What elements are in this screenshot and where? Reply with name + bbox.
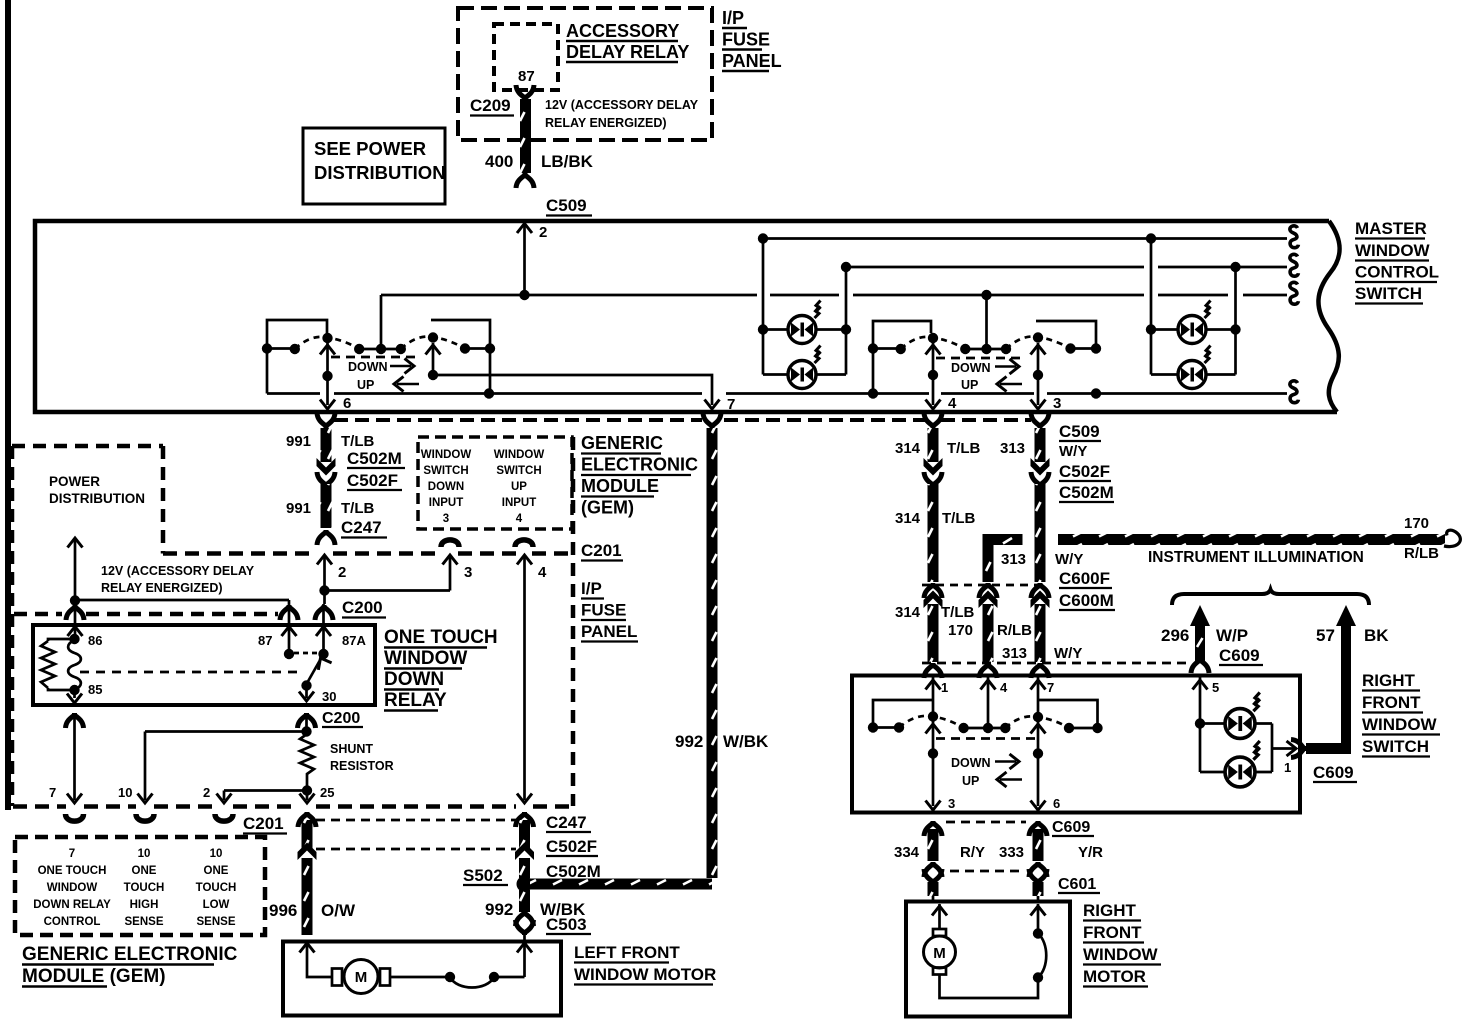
wire 313 W/Y middle bbox=[1035, 484, 1046, 582]
connector C502F bbox=[317, 471, 402, 490]
svg-text:25: 25 bbox=[320, 785, 334, 800]
svg-text:C201: C201 bbox=[581, 541, 622, 560]
svg-text:HIGH: HIGH bbox=[130, 899, 159, 911]
svg-text:C502M: C502M bbox=[347, 449, 402, 468]
svg-text:5: 5 bbox=[1212, 680, 1219, 695]
svg-text:313: 313 bbox=[1001, 551, 1026, 568]
label RIGHT FRONT WINDOW MOTOR bbox=[1083, 901, 1161, 987]
svg-text:GENERIC ELECTRONIC: GENERIC ELECTRONIC bbox=[22, 944, 238, 965]
C201 pin 25 bbox=[300, 785, 335, 803]
svg-text:ELECTRONIC: ELECTRONIC bbox=[581, 455, 698, 475]
svg-text:C200: C200 bbox=[322, 710, 360, 727]
svg-text:C247: C247 bbox=[341, 518, 382, 537]
wire bus row 3 from C509 bbox=[381, 282, 1298, 304]
GEM region top dashed boundary bbox=[334, 418, 1031, 422]
C201 pin 4 wire bbox=[517, 555, 547, 800]
relay pin 87A pivot and arm bbox=[301, 633, 366, 691]
left rocker housing bbox=[267, 320, 490, 394]
wire 296 W/P bbox=[1161, 605, 1263, 673]
svg-text:DISTRIBUTION: DISTRIBUTION bbox=[314, 162, 446, 183]
svg-text:C502M: C502M bbox=[1059, 483, 1114, 502]
svg-text:SHUNT: SHUNT bbox=[330, 742, 373, 756]
middle rocker contacts bbox=[868, 295, 1101, 354]
right switch pin 7 bbox=[1031, 677, 1055, 715]
relay coil bbox=[41, 639, 102, 697]
svg-text:MASTER: MASTER bbox=[1355, 219, 1427, 238]
wire 991 T/LB upper bbox=[286, 428, 374, 462]
relay linkage dashed bbox=[80, 671, 300, 674]
wires into right motor bbox=[928, 882, 1044, 901]
svg-text:WINDOW: WINDOW bbox=[47, 882, 98, 894]
svg-text:C503: C503 bbox=[546, 915, 587, 934]
shunt resistor bbox=[300, 734, 394, 796]
right switch pivot wire pin 3 bbox=[926, 721, 956, 811]
instrument illumination feed wire 170 R/LB bbox=[1058, 515, 1460, 566]
svg-text:O/W: O/W bbox=[321, 901, 356, 920]
svg-text:INPUT: INPUT bbox=[502, 497, 537, 509]
middle rocker housing bbox=[873, 321, 1096, 394]
svg-text:DOWN: DOWN bbox=[951, 361, 991, 375]
svg-text:991: 991 bbox=[286, 500, 311, 517]
illumination LED pair right bbox=[1146, 239, 1241, 389]
pin 87 label bbox=[518, 68, 535, 85]
svg-text:6: 6 bbox=[1053, 796, 1060, 811]
right switch LEDs bbox=[1200, 692, 1272, 787]
svg-text:7: 7 bbox=[49, 785, 56, 800]
svg-text:10: 10 bbox=[210, 848, 223, 860]
label GENERIC ELECTRONIC MODULE (GEM) bottom bbox=[22, 944, 238, 987]
relay pin 85 wire to C201 pin 7 bbox=[49, 690, 84, 821]
GEM pin 3 connector cup bbox=[441, 540, 459, 547]
wire into master switch pin 2 bbox=[517, 222, 547, 295]
label C201 bbox=[581, 541, 623, 561]
wire bus row 4 bbox=[267, 381, 1298, 403]
connector C502F/C502M right bbox=[924, 458, 1115, 502]
svg-text:UP: UP bbox=[961, 378, 978, 392]
svg-text:T/LB: T/LB bbox=[942, 510, 975, 527]
label I/P FUSE PANEL left bbox=[581, 579, 638, 642]
svg-text:UP: UP bbox=[357, 378, 374, 392]
GEM dashed box bottom left bbox=[15, 837, 265, 935]
connector below C201 pin 25 bbox=[298, 812, 316, 827]
svg-text:T/LB: T/LB bbox=[341, 500, 374, 517]
svg-text:RELAY ENERGIZED): RELAY ENERGIZED) bbox=[101, 581, 223, 595]
svg-text:RIGHT: RIGHT bbox=[1083, 901, 1137, 920]
wire 313 W/Y lower bbox=[1002, 604, 1082, 662]
svg-text:POWER: POWER bbox=[49, 474, 100, 489]
svg-text:W/Y: W/Y bbox=[1059, 443, 1087, 460]
svg-text:ONE: ONE bbox=[132, 865, 157, 877]
wire 992 W/BK from master pin 7 bbox=[530, 413, 769, 890]
svg-text:C200: C200 bbox=[342, 598, 383, 617]
svg-text:991: 991 bbox=[286, 433, 311, 450]
svg-text:313: 313 bbox=[1002, 645, 1027, 662]
svg-text:DOWN: DOWN bbox=[951, 756, 991, 770]
svg-text:RIGHT: RIGHT bbox=[1362, 671, 1416, 690]
svg-text:314: 314 bbox=[895, 510, 921, 527]
svg-text:UP: UP bbox=[962, 774, 979, 788]
svg-text:T/LB: T/LB bbox=[947, 440, 980, 457]
svg-text:ACCESSORY: ACCESSORY bbox=[566, 21, 679, 41]
svg-text:296: 296 bbox=[1161, 626, 1189, 645]
middle rocker pivot wire pin 4 bbox=[926, 343, 958, 412]
right switch pin 4 bbox=[981, 677, 1009, 728]
svg-text:R/Y: R/Y bbox=[960, 844, 985, 861]
svg-text:INPUT: INPUT bbox=[429, 497, 464, 509]
svg-text:SEE POWER: SEE POWER bbox=[314, 138, 426, 159]
svg-text:ONE TOUCH: ONE TOUCH bbox=[384, 627, 498, 648]
wire to C609 pin 1 bbox=[1272, 741, 1357, 782]
connector C601 bbox=[924, 862, 1100, 893]
svg-text:87A: 87A bbox=[342, 633, 366, 648]
svg-text:87: 87 bbox=[258, 633, 272, 648]
connector C609 dashed line bbox=[922, 662, 1186, 665]
splice S502 bbox=[463, 858, 533, 892]
svg-text:WINDOW: WINDOW bbox=[1355, 241, 1431, 260]
svg-text:FUSE: FUSE bbox=[581, 601, 626, 620]
svg-text:MODULE: MODULE bbox=[581, 476, 659, 496]
connector C609 below switch bbox=[924, 819, 1094, 836]
GEM pin 4 connector cup bbox=[515, 540, 533, 547]
label GENERIC ELECTRONIC MODULE (GEM) right bbox=[581, 433, 698, 518]
connector at master pin 6 bbox=[317, 413, 335, 428]
svg-text:DOWN: DOWN bbox=[348, 360, 388, 374]
left rocker pivot wire pin 7 bbox=[426, 343, 736, 413]
relay contact gap dashed bbox=[294, 652, 317, 655]
svg-text:W/Y: W/Y bbox=[1055, 551, 1083, 568]
connector C503 bbox=[516, 911, 592, 953]
svg-text:CONTROL: CONTROL bbox=[44, 916, 101, 928]
svg-text:I/P: I/P bbox=[581, 579, 602, 598]
left motor internals bbox=[307, 944, 525, 994]
svg-text:(GEM): (GEM) bbox=[581, 498, 634, 518]
left rocker arms bbox=[295, 332, 465, 349]
svg-text:C502F: C502F bbox=[546, 837, 597, 856]
svg-text:PANEL: PANEL bbox=[581, 622, 637, 641]
connector C247 pin arrow bottom bbox=[517, 794, 532, 804]
label ONE TOUCH WINDOW DOWN RELAY bbox=[384, 627, 498, 711]
svg-text:TOUCH: TOUCH bbox=[124, 882, 165, 894]
right switch pin 1 bbox=[926, 677, 949, 714]
svg-text:7: 7 bbox=[1047, 680, 1054, 695]
right front window switch box bbox=[852, 676, 1300, 813]
svg-text:DOWN: DOWN bbox=[384, 669, 444, 690]
illumination LED pair left bbox=[758, 239, 851, 389]
svg-text:C609: C609 bbox=[1052, 819, 1090, 836]
svg-text:2: 2 bbox=[203, 785, 210, 800]
svg-text:12V (ACCESSORY DELAY: 12V (ACCESSORY DELAY bbox=[545, 98, 699, 112]
connector C502M bbox=[317, 449, 406, 476]
svg-text:FRONT: FRONT bbox=[1083, 923, 1142, 942]
svg-text:TOUCH: TOUCH bbox=[196, 882, 237, 894]
svg-text:CONTROL: CONTROL bbox=[1355, 263, 1439, 282]
svg-text:Y/R: Y/R bbox=[1078, 844, 1103, 861]
svg-text:3: 3 bbox=[1053, 395, 1061, 412]
svg-text:MOTOR: MOTOR bbox=[1083, 967, 1146, 986]
svg-text:DOWN RELAY: DOWN RELAY bbox=[33, 899, 111, 911]
door boundary dashed links bbox=[316, 820, 516, 849]
wire 400 LB/BK bbox=[485, 99, 594, 173]
svg-text:334: 334 bbox=[894, 844, 920, 861]
wire bus row 1 bbox=[758, 226, 1299, 248]
right switch pivot wire pin 6 bbox=[1031, 721, 1061, 811]
svg-text:WINDOW: WINDOW bbox=[384, 648, 467, 669]
svg-text:SENSE: SENSE bbox=[125, 916, 164, 928]
svg-text:C209: C209 bbox=[470, 96, 511, 115]
svg-text:RELAY: RELAY bbox=[384, 690, 447, 711]
svg-text:T/LB: T/LB bbox=[941, 604, 974, 621]
svg-text:W/Y: W/Y bbox=[1054, 645, 1082, 662]
svg-text:C502F: C502F bbox=[347, 471, 398, 490]
svg-text:313: 313 bbox=[1000, 440, 1025, 457]
svg-text:996: 996 bbox=[269, 901, 297, 920]
GEM window switch input dashed box bbox=[418, 437, 572, 529]
svg-text:LEFT FRONT: LEFT FRONT bbox=[574, 943, 680, 962]
svg-text:7: 7 bbox=[69, 848, 75, 860]
svg-text:2: 2 bbox=[539, 224, 547, 241]
wire 314 T/LB upper bbox=[895, 428, 980, 462]
label 12V (ACCESSORY DELAY RELAY ENERGIZED) bbox=[101, 564, 255, 595]
svg-text:C502F: C502F bbox=[1059, 462, 1110, 481]
svg-text:RELAY ENERGIZED): RELAY ENERGIZED) bbox=[545, 116, 667, 130]
connector C502F/C502M bottom bbox=[515, 820, 601, 881]
wire C201 pin2 to relay pin 87A bbox=[315, 591, 333, 652]
right switch rocker housing bbox=[873, 700, 1098, 728]
connector C201 bottom dashed line bbox=[13, 804, 570, 809]
label 12V (ACCESSORY DELAY RELAY ENERGIZED) top bbox=[545, 98, 699, 130]
left rocker contacts bbox=[262, 295, 495, 354]
left switch DOWN/UP legend bbox=[331, 357, 420, 392]
svg-text:C600F: C600F bbox=[1059, 569, 1110, 588]
svg-text:FRONT: FRONT bbox=[1362, 693, 1421, 712]
svg-text:C601: C601 bbox=[1058, 876, 1096, 893]
svg-text:M: M bbox=[933, 945, 946, 962]
svg-text:SENSE: SENSE bbox=[197, 916, 236, 928]
svg-text:WINDOW MOTOR: WINDOW MOTOR bbox=[574, 965, 716, 984]
left rocker pivot wire pin 6 bbox=[320, 343, 351, 412]
connector C201 top dashed line bbox=[163, 551, 573, 556]
svg-text:C609: C609 bbox=[1313, 763, 1354, 782]
power distribution bottom dashed boundary bbox=[14, 612, 278, 617]
svg-text:SWITCH: SWITCH bbox=[1362, 737, 1429, 756]
svg-text:7: 7 bbox=[727, 396, 735, 413]
svg-text:170: 170 bbox=[1404, 515, 1429, 532]
middle rocker pivot wire pin 3 bbox=[1031, 343, 1062, 412]
label RIGHT FRONT WINDOW SWITCH bbox=[1362, 671, 1440, 757]
wire 57 BK bbox=[1291, 605, 1389, 758]
wire bus row 2 bbox=[841, 254, 1299, 276]
svg-text:400: 400 bbox=[485, 152, 513, 171]
svg-text:DOWN: DOWN bbox=[428, 481, 464, 493]
relay pin 86 bbox=[66, 601, 102, 648]
svg-text:3: 3 bbox=[948, 796, 955, 811]
wire to C201 pin 10 bbox=[118, 732, 307, 822]
svg-text:1: 1 bbox=[1284, 760, 1291, 775]
svg-text:992: 992 bbox=[485, 900, 513, 919]
svg-text:333: 333 bbox=[999, 844, 1024, 861]
wire 313 W/Y branch to instrument illumination bbox=[983, 534, 1084, 582]
svg-text:314: 314 bbox=[895, 440, 921, 457]
svg-text:C201: C201 bbox=[243, 814, 284, 833]
middle switch DOWN/UP legend bbox=[936, 358, 1022, 392]
wire 992 W/BK below splice bbox=[485, 890, 586, 919]
svg-text:FUSE: FUSE bbox=[722, 30, 770, 50]
connector C200 label top bbox=[342, 598, 386, 618]
connector C247 bbox=[317, 518, 387, 545]
wire 996 O/W bbox=[269, 820, 356, 953]
connector C247 bottom bbox=[516, 812, 592, 832]
connector C600F/C600M bbox=[922, 569, 1115, 610]
wire 991 T/LB lower bbox=[286, 484, 374, 528]
svg-text:992: 992 bbox=[675, 732, 703, 751]
svg-text:WINDOW: WINDOW bbox=[421, 449, 472, 461]
svg-text:S502: S502 bbox=[463, 866, 503, 885]
svg-text:2: 2 bbox=[338, 564, 346, 581]
C201 pin 2 wire bbox=[317, 555, 346, 596]
svg-text:INSTRUMENT ILLUMINATION: INSTRUMENT ILLUMINATION bbox=[1148, 549, 1364, 566]
svg-text:LB/BK: LB/BK bbox=[541, 152, 594, 171]
svg-text:LOW: LOW bbox=[203, 899, 230, 911]
svg-text:W/BK: W/BK bbox=[723, 732, 769, 751]
svg-text:3: 3 bbox=[443, 513, 449, 525]
wire 334 R/Y bbox=[894, 829, 985, 861]
svg-text:SWITCH: SWITCH bbox=[423, 465, 468, 477]
svg-text:SWITCH: SWITCH bbox=[1355, 284, 1422, 303]
connector C209 bbox=[470, 85, 534, 116]
svg-text:4: 4 bbox=[538, 564, 547, 581]
svg-text:C609: C609 bbox=[1219, 646, 1260, 665]
label I/P FUSE PANEL (top) bbox=[722, 8, 782, 71]
master window control switch box bbox=[35, 221, 1340, 412]
svg-text:C247: C247 bbox=[546, 813, 587, 832]
connector C200 below relay bbox=[298, 710, 364, 728]
svg-text:3: 3 bbox=[464, 564, 472, 581]
svg-text:C509: C509 bbox=[1059, 422, 1100, 441]
power distribution dashed region bbox=[12, 446, 163, 806]
svg-text:30: 30 bbox=[322, 689, 336, 704]
SEE POWER DISTRIBUTION box bbox=[303, 128, 446, 204]
C201 pin 3 wire bbox=[325, 555, 473, 591]
svg-text:T/LB: T/LB bbox=[341, 433, 374, 450]
svg-text:10: 10 bbox=[118, 785, 132, 800]
middle rocker arms bbox=[901, 332, 1071, 349]
svg-text:SWITCH: SWITCH bbox=[496, 465, 541, 477]
svg-text:R/LB: R/LB bbox=[1404, 545, 1439, 562]
accessory delay relay contact dashed box bbox=[494, 24, 558, 90]
wire 314 T/LB lower bbox=[895, 604, 974, 662]
12V wire to relay pin 87 bbox=[75, 600, 298, 652]
relay pin 87 contact bbox=[258, 633, 294, 659]
svg-text:DELAY RELAY: DELAY RELAY bbox=[566, 42, 689, 62]
svg-text:ONE TOUCH: ONE TOUCH bbox=[38, 865, 107, 877]
wire 170 R/LB lower bbox=[948, 604, 1032, 662]
relay pin 30 bbox=[299, 686, 336, 704]
svg-text:4: 4 bbox=[1000, 680, 1008, 695]
svg-text:170: 170 bbox=[948, 622, 973, 639]
right switch contacts bbox=[868, 722, 1103, 733]
one touch window down relay box bbox=[33, 625, 375, 705]
svg-text:314: 314 bbox=[895, 604, 921, 621]
12V supply wire to power distribution bbox=[68, 538, 83, 606]
label ACCESSORY DELAY RELAY bbox=[566, 21, 689, 62]
label POWER DISTRIBUTION bbox=[49, 474, 145, 506]
wire 314 T/LB middle bbox=[895, 484, 975, 582]
svg-text:RESISTOR: RESISTOR bbox=[330, 759, 394, 773]
svg-text:DISTRIBUTION: DISTRIBUTION bbox=[49, 491, 145, 506]
connector C609 bracket bbox=[1172, 590, 1369, 606]
svg-text:W/P: W/P bbox=[1216, 626, 1248, 645]
svg-text:WINDOW: WINDOW bbox=[1362, 715, 1438, 734]
connector C509 bbox=[516, 173, 592, 216]
right switch rocker arms bbox=[899, 711, 1069, 728]
svg-text:10: 10 bbox=[138, 848, 151, 860]
right switch illumination pin 5 bbox=[1193, 677, 1220, 772]
wire to C201 pin 2 bbox=[203, 785, 307, 821]
I/P fuse panel right dashed boundary bbox=[571, 437, 576, 806]
label LEFT FRONT WINDOW MOTOR bbox=[574, 943, 716, 985]
svg-text:C502M: C502M bbox=[546, 862, 601, 881]
svg-text:C509: C509 bbox=[546, 196, 587, 215]
right switch DOWN/UP legend bbox=[936, 739, 1036, 789]
svg-text:6: 6 bbox=[343, 395, 351, 412]
connector C509 at master pins 4 and 3 bbox=[924, 413, 1101, 441]
GEM input labels bbox=[421, 449, 545, 525]
svg-text:R/LB: R/LB bbox=[997, 622, 1032, 639]
label C201 bottom bbox=[243, 814, 287, 834]
svg-text:1: 1 bbox=[941, 680, 948, 695]
C609 pin feet bbox=[924, 663, 1049, 678]
GEM pin function labels bbox=[33, 848, 236, 928]
left front window motor box bbox=[283, 942, 561, 1016]
svg-text:4: 4 bbox=[948, 395, 957, 412]
svg-text:BK: BK bbox=[1364, 626, 1389, 645]
svg-text:12V (ACCESSORY DELAY: 12V (ACCESSORY DELAY bbox=[101, 564, 255, 578]
svg-text:I/P: I/P bbox=[722, 8, 744, 28]
right motor internals bbox=[924, 904, 1047, 998]
right front window motor box bbox=[906, 902, 1070, 1017]
svg-text:57: 57 bbox=[1316, 626, 1335, 645]
label MASTER WINDOW CONTROL SWITCH bbox=[1355, 219, 1439, 304]
svg-text:M: M bbox=[355, 969, 368, 986]
wire 333 Y/R bbox=[999, 829, 1103, 861]
shunt resistor branch node bbox=[301, 714, 311, 737]
svg-text:WINDOW: WINDOW bbox=[494, 449, 545, 461]
svg-text:4: 4 bbox=[516, 513, 523, 525]
svg-text:ONE: ONE bbox=[204, 865, 229, 877]
svg-text:C600M: C600M bbox=[1059, 591, 1114, 610]
I/P fuse panel dashed box (top) bbox=[458, 8, 712, 140]
svg-text:UP: UP bbox=[511, 481, 527, 493]
svg-text:GENERIC: GENERIC bbox=[581, 433, 663, 453]
svg-text:PANEL: PANEL bbox=[722, 51, 782, 71]
svg-text:86: 86 bbox=[88, 633, 102, 648]
svg-text:87: 87 bbox=[518, 68, 535, 85]
svg-text:MODULE (GEM): MODULE (GEM) bbox=[22, 966, 166, 987]
wire 313 W/Y upper bbox=[1000, 428, 1087, 462]
svg-text:WINDOW: WINDOW bbox=[1083, 945, 1159, 964]
svg-text:85: 85 bbox=[88, 682, 102, 697]
